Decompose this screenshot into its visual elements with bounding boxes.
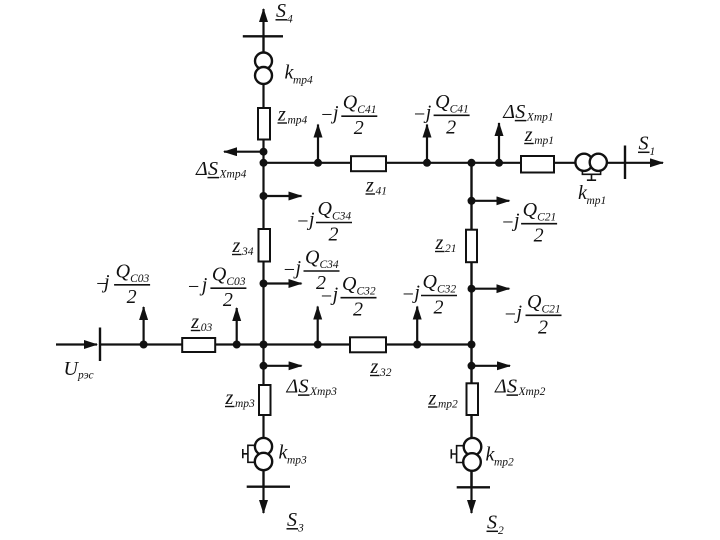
value label zmp1 [524,124,554,147]
svg-text:2: 2 [127,286,137,308]
value label -jQC21-lower/2 [504,291,562,339]
value label kmp3 [279,442,308,467]
svg-text:2: 2 [329,224,339,246]
svg-text:Δ: Δ [502,101,515,123]
svg-text:тр4: тр4 [288,115,308,127]
value label kmp4 [285,62,314,87]
svg-text:Δ: Δ [494,375,507,397]
svg-text:34: 34 [241,246,254,258]
shunt arrow -jQc03/2 at node 0 side of z03 [236,308,238,345]
svg-text:3: 3 [297,523,304,535]
svg-text:2: 2 [434,297,444,319]
svg-text:Q: Q [342,273,357,295]
load label S2 [487,512,505,538]
value label -jQC34-upper/2 [296,198,352,246]
svg-text:Q: Q [527,291,542,313]
resistor z34 [259,229,271,262]
load label S1 [638,133,655,159]
svg-text:тр3: тр3 [235,398,255,410]
value label -jQC32-left/2 [320,273,377,321]
load S3 arrow (down) [262,460,264,513]
resistor z03 [182,338,215,352]
svg-text:C21: C21 [542,303,561,315]
svg-text:−: − [187,276,201,298]
svg-text:z: z [225,387,234,409]
value label z41 [365,175,387,198]
svg-text:S: S [515,101,525,123]
resistor zmp2 [467,383,479,415]
svg-text:−: − [413,103,427,125]
transformer kmp1 (two circles + winding symbol) [575,154,607,181]
value label z32 [370,356,392,379]
value label -jQC34-lower/2 [283,247,340,295]
loss arrow dS_Xmp2 (right) [472,365,511,367]
bus tick node 1 terminal [624,146,626,180]
junction node 3 (bottom bus / left branch) [260,341,268,349]
svg-text:C03: C03 [130,273,149,285]
svg-text:Δ: Δ [286,375,299,397]
load label S3 [287,509,305,535]
wire: source feeder with arrow into U bus [56,343,97,345]
svg-text:Хтр1: Хтр1 [526,111,554,123]
svg-text:03: 03 [201,322,213,334]
svg-text:−: − [320,286,334,308]
svg-text:тр1: тр1 [587,195,607,207]
value label z03 [190,311,212,334]
junction node (top bus / right branch) [468,159,476,167]
svg-text:2: 2 [354,117,364,139]
svg-text:тр2: тр2 [438,399,458,411]
resistor z32 [350,337,386,352]
svg-text:тр4: тр4 [293,75,313,87]
svg-text:C34: C34 [332,211,351,223]
shunt arrow -jQc32/2 at node 2 side [416,307,418,345]
shunt arrow -jQc34/2 at node 4 side [264,195,302,197]
svg-text:C41: C41 [357,104,376,116]
svg-text:S: S [507,375,517,397]
value label -jQC03-right/2 [187,264,247,312]
svg-text:C21: C21 [537,212,556,224]
junction node (bottom bus / right branch) [468,341,476,349]
bus tick source U terminal [99,328,101,362]
shunt arrow -jQc41/2 at node 4 side [317,125,319,163]
shunt arrow -jQc21/2 at node 2 side [472,288,510,290]
svg-text:z: z [232,235,241,257]
svg-text:C32: C32 [437,284,456,296]
svg-text:−: − [320,104,334,126]
svg-text:Δ: Δ [195,158,208,180]
loss label dS_Xmp3 [286,375,338,398]
svg-text:Q: Q [116,260,131,282]
svg-text:S: S [487,512,497,534]
svg-text:Q: Q [305,247,320,269]
svg-text:z: z [435,232,444,254]
value label zmp2 [428,388,459,411]
svg-text:−: − [296,211,310,233]
wire: left vertical branch (node 4 down to node 3 transformer) [262,36,264,487]
loss label dS_Xmp1 [502,101,553,124]
load S2 arrow (down) [470,460,472,513]
resistor z21 [466,230,477,263]
value label z34 [232,235,254,258]
svg-text:Хтр4: Хтр4 [219,168,247,180]
source label U_res [64,358,94,382]
load S4 arrow (up) [262,9,264,60]
svg-text:2: 2 [538,316,548,338]
loss label dS_Xmp4 [195,158,247,181]
svg-text:тр2: тр2 [494,457,514,469]
value label zmp3 [225,387,256,410]
svg-text:Q: Q [523,199,538,221]
value label -jQC32-right/2 [401,271,457,319]
svg-text:z: z [428,388,437,410]
value label zmp4 [277,104,308,127]
loss arrow dS_Xmp4 (left) [224,151,264,153]
svg-text:1: 1 [650,146,656,158]
svg-text:S: S [276,0,286,22]
svg-text:Хтр2: Хтр2 [518,386,546,398]
shunt arrow -jQc21/2 at node 1 side [472,200,510,202]
svg-text:S: S [639,133,649,155]
svg-text:41: 41 [376,186,388,198]
value label -jQC41-left/2 [320,92,377,140]
load label S4 [276,0,294,26]
transformer kmp2 (two circles + winding symbol) [451,438,481,471]
svg-text:Q: Q [212,264,227,286]
svg-text:2: 2 [223,289,233,311]
svg-text:−: − [504,303,518,325]
resistor z41 [351,156,386,171]
svg-text:21: 21 [445,243,457,255]
bus tick node 3 terminal [247,486,290,488]
svg-text:тр1: тр1 [534,135,554,147]
resistor zmp3 [259,385,271,415]
value label -jQC21-upper/2 [501,199,557,247]
svg-text:z: z [277,104,286,126]
loss arrow dS_Xmp1 (up) [498,123,500,163]
transformer kmp3 (two circles + winding symbol) [243,438,272,470]
svg-text:S: S [287,509,297,531]
svg-text:z: z [365,175,374,197]
svg-text:C03: C03 [226,276,245,288]
svg-text:2: 2 [534,225,544,247]
value label kmp2 [486,444,515,469]
shunt arrow -jQc41/2 at node 1 side [426,125,428,163]
svg-text:Q: Q [435,91,450,113]
wire: top bus from node 4 to transformer kmp1 [264,162,664,164]
svg-text:рэс: рэс [77,370,94,382]
svg-text:Хтр3: Хтр3 [309,386,337,398]
wire: bottom bus from source to node 2 branch [100,343,472,345]
shunt arrow -jQc32/2 at node 3 side [317,307,319,345]
shunt arrow -jQc03/2 at node near source [143,307,145,345]
svg-text:Q: Q [423,271,438,293]
bus tick node 2 terminal [457,486,490,488]
svg-text:C32: C32 [357,286,376,298]
svg-text:Q: Q [318,198,333,220]
transformer kmp4 (two circles) [255,53,272,85]
svg-text:C41: C41 [450,103,469,115]
value label kmp1 [578,182,606,207]
svg-text:2: 2 [353,299,363,321]
resistor zmp1 [521,156,554,173]
svg-text:32: 32 [379,367,392,379]
value label -jQC41-right/2 [413,91,470,139]
loss label dS_Xmp2 [494,375,546,398]
svg-text:C34: C34 [320,259,339,271]
svg-text:тр3: тр3 [287,455,307,467]
wire: right vertical branch (node 1 down to node 2 transformer) [470,163,472,488]
loss arrow dS_Xmp3 (right) [264,365,302,367]
svg-text:−: − [501,212,515,234]
svg-text:4: 4 [287,14,293,26]
resistor zmp4 [258,108,270,140]
svg-text:z: z [524,124,533,146]
shunt arrow -jQc34/2 at node 3 side [264,282,302,284]
svg-text:−: − [283,259,297,281]
svg-text:S: S [208,158,218,180]
svg-text:S: S [299,375,309,397]
svg-text:z: z [370,356,379,378]
svg-text:Q: Q [343,92,358,114]
svg-text:2: 2 [446,116,456,138]
bus tick node 4 terminal [243,35,283,37]
junction node 4 (top bus / left branch) [260,159,268,167]
value label z21 [435,232,457,255]
svg-text:z: z [190,311,199,333]
value label -jQC03-left/2 [95,260,150,308]
svg-text:−: − [401,284,415,306]
svg-text:2: 2 [498,525,504,537]
